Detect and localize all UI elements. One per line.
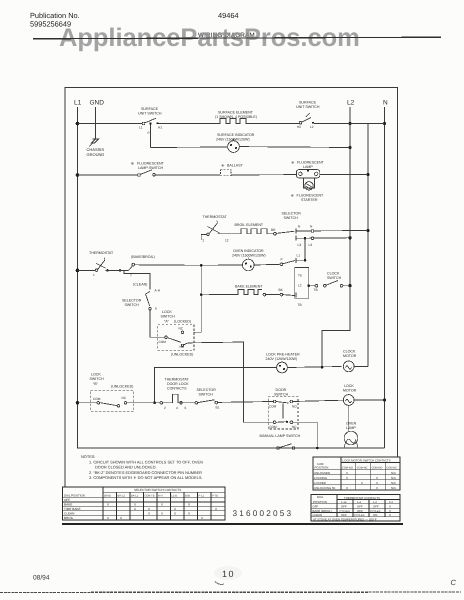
svg-text:NOTES:: NOTES:	[81, 454, 95, 459]
svg-text:COM-NC: COM-NC	[386, 467, 397, 470]
wire L1 to lock switch B	[78, 402, 98, 404]
svg-text:COM: COM	[93, 397, 101, 401]
svg-text:SWITCH: SWITCH	[274, 392, 289, 396]
svg-text:X: X	[174, 512, 176, 516]
svg-text:X: X	[161, 503, 163, 507]
svg-text:X: X	[107, 516, 109, 520]
motor clock motor	[343, 361, 354, 372]
svg-text:FLUORESCENT: FLUORESCENT	[297, 194, 325, 198]
svg-text:BALLAST: BALLAST	[227, 164, 244, 168]
wire clock switch row	[309, 285, 316, 287]
svg-text:H2: H2	[297, 125, 301, 129]
svg-text:CLEAN: CLEAN	[313, 513, 323, 517]
wire row4 L1 to oven thermostat	[78, 269, 96, 271]
svg-text:SWITCH: SWITCH	[161, 315, 176, 319]
svg-text:X: X	[174, 507, 176, 511]
resistor bake element	[236, 290, 262, 295]
switch clock switch	[326, 281, 338, 286]
svg-text:X: X	[201, 516, 203, 520]
svg-text:BROIL: BROIL	[64, 516, 74, 520]
svg-text:SELECTOR: SELECTOR	[282, 212, 302, 216]
svg-text:TB: TB	[314, 288, 318, 292]
lamp oven lamp	[344, 431, 358, 445]
svg-text:NC: NC	[292, 425, 297, 429]
svg-text:COM: COM	[159, 340, 167, 344]
footer dotted rule	[0, 591, 461, 594]
node GND	[90, 100, 105, 107]
wire N branch bus	[367, 124, 369, 367]
svg-text:T6: T6	[298, 274, 302, 278]
svg-text:FLUORESCENT: FLUORESCENT	[137, 162, 165, 166]
svg-text:L2: L2	[298, 283, 302, 287]
junction dots top of buses	[76, 122, 386, 405]
svg-text:C: C	[451, 578, 457, 587]
svg-text:7: 7	[130, 274, 132, 278]
svg-text:X: X	[346, 476, 348, 480]
wire broil element to BR terminal	[268, 233, 274, 235]
switch selector clean contact	[146, 287, 151, 306]
svg-text:X: X	[148, 507, 150, 511]
svg-text:OFF: OFF	[357, 509, 363, 513]
wire lock relay row feed	[155, 368, 277, 403]
wire row2 to indicator	[151, 146, 228, 149]
svg-text:AT STOVE AT OVEN TEMPERATURES: AT STOVE AT OVEN TEMPERATURES — 550°F	[313, 518, 377, 522]
svg-text:DIAL POSITION: DIAL POSITION	[64, 493, 85, 497]
svg-text:TB: TB	[298, 303, 302, 307]
svg-text:BR-BI: BR-BI	[104, 495, 111, 498]
svg-text:✳: ✳	[221, 163, 225, 168]
svg-text:“A”: “A”	[164, 319, 170, 323]
wire lock motor to N	[354, 399, 384, 401]
svg-text:POSITION: POSITION	[315, 466, 329, 470]
svg-text:THERMOSTAT: THERMOSTAT	[165, 377, 190, 381]
svg-text:SWITCH: SWITCH	[327, 276, 342, 280]
node L2	[347, 100, 355, 107]
svg-text:LAMP: LAMP	[346, 426, 356, 430]
svg-text:(CLEAN): (CLEAN)	[133, 282, 147, 286]
table lock motor switch contacts	[313, 457, 400, 490]
motor lock motor	[343, 395, 354, 406]
wire N bus	[384, 107, 386, 448]
switch selector door-lock contact	[179, 402, 195, 404]
table thermostat contacts	[311, 495, 400, 522]
wire row3 lamp to N branch	[320, 174, 368, 176]
svg-text:COM-NC: COM-NC	[357, 467, 368, 470]
wire row1 L1 to surface unit switch	[78, 123, 143, 125]
switch selector bake/broil contact	[129, 267, 133, 271]
svg-text:SELECTOR SWITCH CONTACTS: SELECTOR SWITCH CONTACTS	[134, 488, 181, 492]
svg-text:NC: NC	[179, 327, 184, 331]
wire thermostat common to lock A NC	[194, 295, 202, 332]
svg-text:OVEN: OVEN	[346, 421, 357, 425]
svg-text:316002053: 316002053	[233, 509, 294, 518]
schematic frame	[65, 88, 398, 488]
wire lock switch A com tap	[165, 336, 168, 339]
svg-text:49464: 49464	[218, 11, 239, 20]
svg-text:SWITCH: SWITCH	[199, 393, 214, 397]
svg-text:X: X	[215, 507, 217, 511]
svg-text:LOCK MOTOR SWITCH CONTACTS: LOCK MOTOR SWITCH CONTACTS	[343, 458, 391, 462]
svg-text:OFF: OFF	[373, 505, 379, 509]
svg-text:BROIL ELEMENT: BROIL ELEMENT	[235, 223, 264, 227]
svg-text:N/A: N/A	[391, 476, 396, 480]
switch selector broil contact to N row	[276, 231, 294, 233]
thermostat oven (left)	[95, 269, 97, 271]
wire door NC down to bottom wire	[293, 422, 318, 448]
svg-text:X: X	[161, 512, 163, 516]
frame bottom thick line	[62, 523, 403, 525]
svg-text:L1: L1	[297, 254, 301, 258]
svg-text:CLOCK: CLOCK	[343, 349, 356, 353]
svg-text:X: X	[361, 481, 363, 485]
svg-text:240V (120W/120W): 240V (120W/120W)	[266, 357, 298, 361]
svg-text:X: X	[148, 512, 150, 516]
svg-text:X: X	[376, 476, 378, 480]
svg-text:FLUORESCENT: FLUORESCENT	[297, 161, 325, 165]
svg-text:B1: B1	[216, 405, 220, 409]
wire bake row from thermostat vertical	[200, 265, 202, 294]
wire door NO to lock motor	[293, 400, 344, 401]
svg-text:08/94: 08/94	[33, 575, 50, 582]
svg-text:6: 6	[185, 406, 187, 410]
svg-text:L2: L2	[310, 125, 314, 129]
wire lock B to thermostat door lock contacts	[127, 402, 160, 404]
wire selector to lock switch A com	[150, 310, 165, 337]
svg-text:P: P	[148, 131, 150, 135]
wire bake element to BK terminal	[263, 293, 266, 296]
svg-text:X: X	[120, 516, 122, 520]
svg-text:SWITCH: SWITCH	[90, 377, 105, 381]
wire bake/broil to node	[135, 264, 202, 267]
svg-text:X: X	[107, 503, 109, 507]
wire indicator to P contact	[254, 263, 280, 266]
svg-text:A-H: A-H	[158, 495, 163, 498]
svg-text:P-TB: P-TB	[212, 495, 218, 498]
wire row2 indicator to L2	[239, 146, 350, 149]
wire row3 switch to ballast	[156, 174, 221, 176]
notes	[81, 454, 203, 480]
wire GND stub	[95, 107, 97, 139]
svg-text:X: X	[376, 486, 378, 490]
svg-text:CONTACTS: CONTACTS	[167, 387, 187, 391]
svg-text:L3: L3	[298, 243, 302, 247]
svg-text:N: N	[298, 225, 301, 229]
svg-text:OVEN INDICATOR: OVEN INDICATOR	[233, 249, 264, 253]
svg-text:CLOCK: CLOCK	[327, 272, 340, 276]
svg-text:✳: ✳	[291, 193, 295, 198]
ballast	[220, 170, 231, 176]
svg-text:X: X	[188, 503, 190, 507]
svg-text:LOCK: LOCK	[91, 373, 101, 377]
svg-text:L1-B: L1-B	[172, 495, 178, 498]
svg-text:N: N	[383, 100, 388, 107]
svg-text:SWITCH: SWITCH	[125, 303, 140, 307]
lamp surface indicator	[228, 141, 240, 153]
svg-text:2: 2	[203, 239, 205, 243]
wire row1 to element	[159, 123, 219, 125]
wire L2 bus	[322, 107, 350, 367]
switch surface unit switch 1	[142, 122, 145, 125]
wire row1 switch2 to N	[314, 123, 385, 125]
wire lock A NC to door switch	[184, 342, 273, 422]
svg-text:COM: COM	[269, 425, 277, 429]
svg-text:NC: NC	[122, 396, 127, 400]
switch surface unit switch 2	[299, 122, 302, 125]
lock switch A	[158, 325, 194, 351]
footer page number 10	[214, 566, 242, 580]
svg-text:OFF: OFF	[341, 513, 347, 517]
svg-text:THERMOSTAT: THERMOSTAT	[89, 251, 114, 255]
svg-text:THERMOSTAT: THERMOSTAT	[203, 215, 228, 219]
wire selector clean branch	[124, 270, 150, 287]
svg-text:LOCKED: LOCKED	[314, 481, 326, 485]
wire clock motor to N branch	[354, 365, 368, 367]
svg-text:B-BI: B-BI	[185, 495, 190, 498]
svg-text:BR: BR	[271, 228, 276, 232]
wire thermostat to broil element	[218, 233, 240, 235]
svg-text:3. COMPONENTS WITH ✳ DO NOT A: 3. COMPONENTS WITH ✳ DO NOT APPEAR ON AL…	[89, 475, 203, 480]
switch fluorescent lamp switch	[138, 174, 141, 177]
svg-text:SELECTOR: SELECTOR	[197, 388, 217, 392]
svg-text:P: P	[281, 258, 283, 262]
svg-text:MANUAL LAMP SWITCH: MANUAL LAMP SWITCH	[260, 434, 301, 438]
header publication text	[30, 11, 239, 29]
svg-text:GROUND: GROUND	[87, 152, 105, 157]
svg-text:GND: GND	[90, 100, 105, 107]
svg-text:P-L1: P-L1	[199, 495, 205, 498]
svg-text:(1 SHOWN, 4 POSSIBLE): (1 SHOWN, 4 POSSIBLE)	[215, 115, 257, 119]
thermostat door lock contacts	[163, 394, 180, 403]
svg-text:THERMOSTAT CONTACTS: THERMOSTAT CONTACTS	[344, 496, 380, 500]
svg-text:10: 10	[222, 569, 235, 579]
svg-text:H1: H1	[158, 126, 162, 130]
svg-text:NO: NO	[292, 404, 297, 408]
svg-text:BR-L2: BR-L2	[118, 495, 126, 498]
svg-text:L2: L2	[347, 100, 355, 107]
selector gang bracket	[295, 268, 309, 299]
wire relay to clock motor	[287, 367, 341, 368]
svg-text:BAKE ELEMENT: BAKE ELEMENT	[235, 285, 263, 289]
svg-text:OFF: OFF	[64, 498, 70, 502]
svg-text:DIAL: DIAL	[317, 495, 324, 499]
svg-text:A-H: A-H	[155, 289, 161, 293]
svg-text:4: 4	[176, 406, 178, 410]
svg-text:OFF: OFF	[341, 505, 347, 509]
wire row3 L1 to fluorescent switch	[78, 174, 138, 176]
svg-text:1: 1	[93, 273, 95, 277]
svg-text:SELECTOR: SELECTOR	[122, 299, 142, 303]
door switch	[268, 397, 298, 429]
svg-text:LOCK: LOCK	[162, 310, 172, 314]
svg-text:(UNLOCKED): (UNLOCKED)	[111, 385, 133, 389]
svg-text:12: 12	[225, 239, 229, 243]
svg-text:X: X	[134, 503, 136, 507]
thermostat broil (right)	[201, 235, 207, 241]
svg-text:UNLOCKED: UNLOCKED	[314, 471, 330, 475]
svg-text:MOTOR: MOTOR	[343, 389, 357, 393]
svg-text:N/A: N/A	[391, 471, 396, 475]
svg-text:STARTER: STARTER	[301, 198, 318, 202]
switch blade lock A	[167, 338, 181, 343]
svg-text:✳: ✳	[291, 160, 295, 165]
svg-text:LOCKING: LOCKING	[314, 476, 328, 480]
fluorescent starter	[304, 178, 315, 188]
svg-text:COM: COM	[269, 404, 277, 408]
svg-text:CLEAN: CLEAN	[64, 512, 74, 516]
switch manual lamp switch	[260, 434, 301, 438]
wire row4 thermostat to selector	[106, 269, 129, 271]
wire selector common vertical	[304, 238, 306, 260]
switch selector bake contact	[283, 294, 295, 297]
svg-text:L3: L3	[309, 243, 313, 247]
table selector switch contacts	[63, 487, 226, 520]
svg-text:L1: L1	[139, 126, 143, 130]
wire selector L3 row to L2	[295, 236, 297, 241]
resistor surface element	[218, 119, 250, 124]
svg-text:X: X	[134, 507, 136, 511]
svg-text:N/A: N/A	[391, 486, 396, 490]
svg-text:BK: BK	[279, 288, 284, 292]
svg-text:COM-NO: COM-NO	[372, 467, 383, 470]
svg-text:DOOR LOCK: DOOR LOCK	[167, 382, 189, 386]
node L1	[74, 100, 82, 107]
svg-text:UNIT SWITCH: UNIT SWITCH	[138, 112, 162, 116]
svg-text:DOOR: DOOR	[276, 388, 287, 392]
svg-text:SURFACE ELEMENT: SURFACE ELEMENT	[218, 111, 254, 115]
svg-text:ON: ON	[373, 513, 377, 517]
svg-text:X: X	[389, 513, 391, 517]
door switch gang link	[282, 403, 284, 418]
wire ballast to fluorescent lamp	[231, 174, 296, 176]
fluorescent lamp	[296, 170, 319, 178]
wire selector N row	[296, 230, 368, 233]
svg-text:240V (1500W/120W): 240V (1500W/120W)	[232, 254, 266, 258]
svg-text:BAKE: BAKE	[64, 503, 72, 507]
svg-text:SURFACE: SURFACE	[299, 101, 317, 105]
svg-text:X: X	[376, 481, 378, 485]
wire pilot drop P	[150, 124, 152, 148]
lock switch B	[91, 391, 134, 412]
svg-text:✳: ✳	[131, 161, 135, 166]
svg-text:6: 6	[155, 307, 157, 311]
svg-text:X: X	[346, 486, 348, 490]
svg-text:TIME BAKE: TIME BAKE	[64, 507, 81, 511]
header rule	[33, 37, 441, 39]
svg-text:240V (1500W/120W): 240V (1500W/120W)	[216, 138, 250, 142]
svg-text:SURFACE INDICATOR: SURFACE INDICATOR	[217, 133, 255, 137]
svg-text:LAMP-SWITCH: LAMP-SWITCH	[138, 166, 164, 170]
svg-text:BA-L1: BA-L1	[131, 495, 139, 498]
svg-text:2: 2	[164, 406, 166, 410]
svg-text:N/A: N/A	[391, 481, 396, 485]
svg-text:UNIT SWITCH: UNIT SWITCH	[296, 105, 320, 109]
svg-text:MOTOR: MOTOR	[343, 354, 357, 358]
svg-text:“B”: “B”	[93, 382, 99, 386]
svg-text:X: X	[346, 471, 348, 475]
svg-text:LOCK PRE-HEATER: LOCK PRE-HEATER	[266, 353, 300, 357]
node N	[383, 100, 388, 107]
ground chassis symbol	[90, 139, 99, 147]
wire L1 bus	[78, 107, 385, 448]
svg-text:COM-NO: COM-NO	[342, 467, 353, 470]
switch selector P contact	[283, 261, 295, 264]
svg-text:CON-TB: CON-TB	[145, 495, 155, 498]
svg-text:LAMP: LAMP	[303, 165, 313, 169]
svg-text:L1: L1	[74, 100, 82, 107]
svg-text:SWITCH: SWITCH	[284, 216, 299, 220]
svg-text:UNLOCKING 50: UNLOCKING 50	[314, 486, 336, 490]
svg-text:LOCK: LOCK	[344, 384, 354, 388]
relay lock pre-heater	[277, 362, 288, 373]
resistor broil element	[239, 229, 268, 234]
svg-text:(LOCKED): (LOCKED)	[174, 319, 191, 323]
svg-text:X: X	[188, 512, 190, 516]
lamp oven indicator	[201, 264, 242, 266]
svg-text:SURFACE: SURFACE	[141, 107, 159, 111]
wire selector to door switch	[218, 401, 274, 404]
svg-text:(UNLOCKED): (UNLOCKED)	[171, 353, 193, 357]
wire element to switch 2	[250, 123, 299, 125]
svg-text:POSITION: POSITION	[313, 500, 327, 504]
svg-text:N: N	[310, 225, 313, 229]
svg-text:(BAKE/BROIL): (BAKE/BROIL)	[131, 255, 155, 259]
